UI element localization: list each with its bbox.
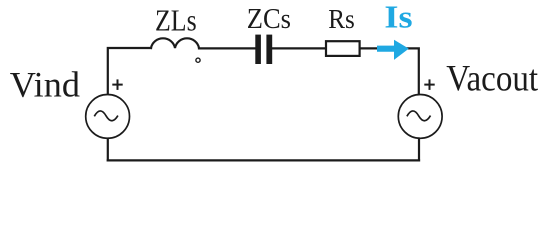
wire top-left segment xyxy=(108,48,151,93)
dot marker at inductor right terminal xyxy=(196,58,200,62)
ac source Vind xyxy=(86,95,130,139)
resistor Rs xyxy=(326,41,360,56)
svg-text:ZLs: ZLs xyxy=(155,4,197,38)
wire resistor to corner, down to right source xyxy=(360,48,419,93)
wire inductor to capacitor xyxy=(199,47,255,49)
inductor ZLs xyxy=(151,38,199,48)
svg-text:Vind: Vind xyxy=(10,64,80,104)
ac source Vacout xyxy=(398,95,442,139)
svg-text:ZCs: ZCs xyxy=(247,3,291,35)
wire bottom rail xyxy=(108,159,419,161)
wire right source bottom xyxy=(418,139,420,161)
wire capacitor to resistor xyxy=(272,47,326,49)
plus sign of Vacout xyxy=(424,79,434,90)
current arrow Is xyxy=(377,40,409,60)
svg-text:Vacout: Vacout xyxy=(446,58,538,99)
capacitor ZCs xyxy=(255,35,272,64)
wire left source bottom xyxy=(107,139,109,161)
plus sign of Vind xyxy=(112,79,122,90)
svg-text:Is: Is xyxy=(384,0,412,35)
svg-text:Rs: Rs xyxy=(328,4,355,34)
